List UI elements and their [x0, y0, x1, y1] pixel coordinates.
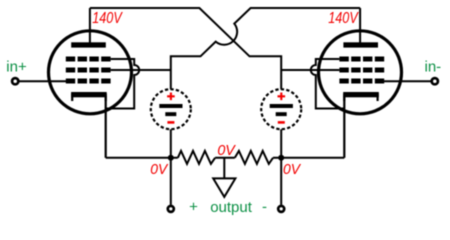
svg-text:0V: 0V: [150, 161, 169, 178]
tube V1 plate: [71, 42, 106, 47]
tube V2 envelope: [319, 31, 402, 114]
wire B1 bottom: [170, 129, 172, 158]
svg-text:0V: 0V: [217, 142, 236, 159]
resistor R1: [178, 151, 215, 164]
wire V2 g2 lead to source node: [281, 69, 339, 71]
svg-text:+: +: [189, 198, 198, 215]
wire rail center: [215, 157, 235, 159]
source B1 positive plate: [159, 104, 182, 108]
tube V1 cathode: [72, 95, 106, 101]
tube V2 grid g3 row: [339, 57, 384, 62]
tube V2 cathode: [344, 95, 377, 101]
wire in+ to V1 g1: [19, 80, 70, 82]
wire output -: [280, 158, 282, 205]
tube V2 grid g2 row: [339, 68, 384, 73]
tube V1 grid g2 row: [66, 68, 111, 73]
wire bottom rail left: [106, 157, 178, 159]
resistor R2: [235, 151, 273, 164]
source B1 envelope: [151, 89, 191, 129]
terminal in+: [12, 78, 18, 84]
svg-text:140V: 140V: [92, 10, 123, 27]
wire V1 cathode lead: [105, 96, 107, 158]
source B2 minus mark: [278, 121, 285, 124]
ground: [213, 178, 235, 197]
wire in- to V2 g1: [380, 80, 431, 82]
tube V1 envelope: [49, 31, 132, 114]
source B1 minus mark: [167, 121, 174, 124]
terminal output +: [168, 206, 174, 212]
svg-text:-: -: [262, 198, 267, 215]
svg-text:140V: 140V: [328, 10, 359, 27]
wire plate lead V2: [359, 8, 361, 45]
source B2 positive plate: [270, 104, 293, 108]
wire V1 g3 lead to cathode with hop over g2 lead: [106, 59, 140, 109]
tube V2 grid g1 row: [339, 79, 384, 84]
wire top rail right (V2 plate to cross) with hop over: [171, 8, 360, 89]
source B1 negative plate: [165, 112, 176, 116]
tube V1 grid g1 row: [66, 79, 111, 84]
svg-text:0V: 0V: [283, 161, 302, 178]
junction node left: [168, 155, 174, 161]
junction node right: [278, 155, 284, 161]
tube V1 grid g3 row: [66, 57, 111, 62]
source B1 plus mark: [167, 93, 175, 101]
svg-text:output: output: [210, 199, 253, 216]
source B2 negative plate: [276, 112, 287, 116]
tube V2 plate: [343, 42, 378, 47]
wire output +: [170, 158, 172, 205]
wire V2 g3 lead to cathode with hop over g2 lead: [311, 59, 345, 109]
svg-text:in-: in-: [425, 58, 442, 75]
source B2 envelope: [261, 89, 301, 129]
wire B2 bottom: [280, 129, 282, 158]
wire top rail left (V1 plate to cross): [90, 8, 281, 89]
svg-text:in+: in+: [6, 58, 27, 75]
terminal in-: [432, 78, 438, 84]
wire V2 cathode lead: [343, 96, 345, 158]
wire ground tap: [223, 158, 225, 179]
wire bottom rail right: [273, 157, 344, 159]
terminal output -: [278, 206, 284, 212]
wire V1 g2 lead to source node: [111, 69, 171, 71]
source B2 plus mark: [278, 93, 286, 101]
wire plate lead V1: [89, 8, 91, 45]
